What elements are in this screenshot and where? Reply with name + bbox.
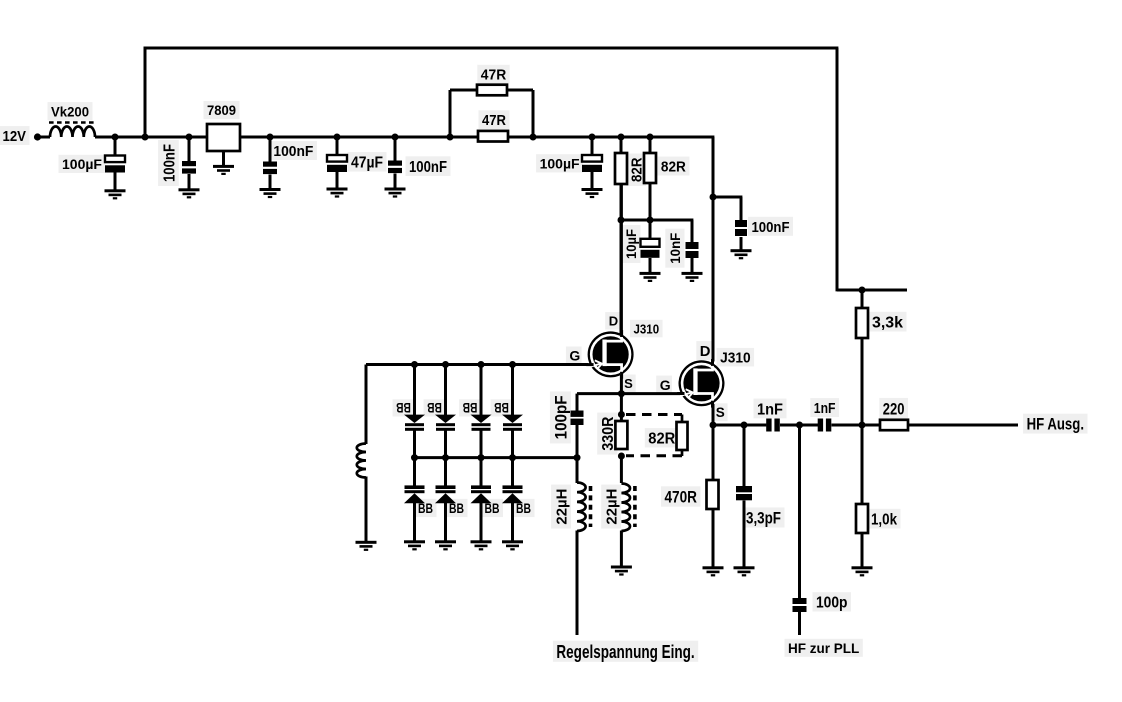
svg-text:100µF: 100µF [540,155,580,171]
svg-text:82R: 82R [661,159,686,176]
svg-text:1nF: 1nF [814,400,836,417]
svg-text:100nF: 100nF [161,144,178,182]
svg-text:HF zur PLL: HF zur PLL [788,641,859,656]
svg-text:BB: BB [516,500,531,516]
svg-text:10nF: 10nF [667,232,683,263]
svg-text:100nF: 100nF [273,143,313,160]
svg-text:22µH: 22µH [604,489,621,525]
svg-text:HF Ausg.: HF Ausg. [1027,416,1084,434]
svg-text:100nF: 100nF [409,159,447,176]
svg-text:S: S [716,405,725,420]
svg-text:3,3pF: 3,3pF [746,510,781,528]
svg-text:10µF: 10µF [623,229,639,259]
svg-text:47R: 47R [482,113,506,129]
svg-text:100µF: 100µF [62,156,102,172]
svg-text:J310: J310 [720,350,751,366]
svg-text:Vk200: Vk200 [51,103,89,119]
svg-text:J310: J310 [634,321,660,336]
svg-text:1,0k: 1,0k [871,512,897,529]
svg-text:D: D [700,344,711,360]
svg-text:3,3k: 3,3k [872,315,903,332]
svg-text:330R: 330R [600,417,617,451]
svg-text:BB: BB [463,400,478,416]
svg-text:470R: 470R [665,488,698,507]
svg-text:BB: BB [494,400,509,416]
svg-text:BB: BB [449,500,464,516]
svg-text:220: 220 [883,399,905,418]
svg-text:100nF: 100nF [752,219,790,236]
svg-text:BB: BB [427,400,442,416]
svg-text:BB: BB [418,500,433,516]
svg-text:Regelspannung Eing.: Regelspannung Eing. [556,642,694,662]
svg-text:S: S [624,376,633,391]
svg-text:82R: 82R [648,430,675,447]
svg-text:12V: 12V [3,128,27,145]
svg-text:D: D [609,314,618,329]
svg-text:BB: BB [396,400,411,416]
svg-text:47R: 47R [481,68,507,84]
svg-text:G: G [660,377,671,393]
svg-text:22µH: 22µH [554,489,571,525]
svg-text:1nF: 1nF [757,401,783,418]
svg-text:BB: BB [485,500,500,516]
svg-text:100pF: 100pF [553,395,571,439]
svg-text:G: G [569,348,580,364]
svg-text:100p: 100p [816,595,848,612]
svg-text:7809: 7809 [207,102,236,118]
svg-text:47µF: 47µF [351,155,383,172]
